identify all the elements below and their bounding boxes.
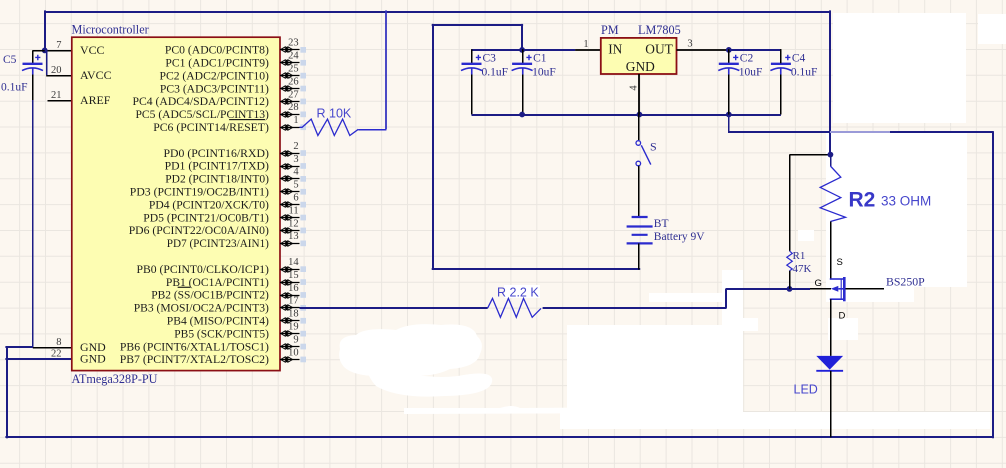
wire R2 top lead [830,155,832,166]
svg-text:13: 13 [288,231,299,242]
wire battery loop top [432,24,523,26]
svg-text:0.1uF: 0.1uF [791,67,818,79]
capacitor C3 [471,49,473,63]
resistor R1 47K [787,251,793,271]
wire battery loop top drop [521,24,523,50]
white patch right middle [826,133,967,302]
white band at gate wire [649,293,725,302]
svg-text:22: 22 [51,348,62,359]
wire PB3 to resistor [300,307,488,309]
svg-text:PD5 (PCINT21/OC0B/T1): PD5 (PCINT21/OC0B/T1) [143,210,269,224]
svg-text:Microcontroller: Microcontroller [72,23,149,37]
wire C5 lower lead black [32,74,34,100]
wire R1 bottom [789,271,791,289]
wire C2 bottom lead [728,75,730,115]
battery BT plates [632,216,648,218]
svg-text:2: 2 [293,141,298,152]
svg-text:26: 26 [288,76,299,87]
wire R10K tail [358,129,386,131]
wire battery loop left [432,24,434,270]
white patch left of R2 bottom [798,230,814,241]
wire LED to ground rail [830,371,832,438]
wire bottom ground rail [5,436,993,438]
wire C1 bottom lead [522,75,524,115]
resistor R2 [820,166,845,222]
svg-text:12: 12 [288,218,299,229]
wire R1 drop [789,155,791,251]
svg-text:9: 9 [293,334,298,345]
wire C5 top link horizontal [33,50,45,52]
svg-text:C3: C3 [483,53,497,65]
wire AVCC stub [46,75,72,77]
svg-text:1: 1 [293,115,298,126]
LED cathode bar [816,370,843,372]
capacitor C5 [23,63,43,65]
wire R1 top from VCC node [790,154,831,156]
wire battery to loop bottom [638,243,640,269]
svg-text:C1: C1 [533,53,547,65]
wire ground link navy right [890,131,994,133]
svg-text:10uF: 10uF [739,67,763,79]
svg-text:PB1 (OC1A/PCINT1): PB1 (OC1A/PCINT1) [166,275,269,289]
white column at wire jog [722,270,743,330]
wire VCC pin stub [45,50,72,52]
white rect right of blob [567,325,743,415]
wire ground link faded [830,131,890,133]
svg-text:GND: GND [80,351,106,365]
wire right ground riser [992,131,994,438]
white blob swoosh [367,360,492,397]
svg-text:16: 16 [288,283,299,294]
svg-text:PC6 (PCINT14/RESET): PC6 (PCINT14/RESET) [153,120,269,134]
white patch SE of jog [742,318,758,331]
wire output to C4 [729,49,781,51]
wire left rail drop to VCC [44,10,46,50]
transistor BS250P symbol [830,278,845,280]
wire AREF stub [48,100,72,102]
svg-text:LM7805: LM7805 [638,23,681,37]
svg-text:R2: R2 [849,189,876,212]
svg-text:PD0 (PCINT16/RXD): PD0 (PCINT16/RXD) [164,146,269,160]
svg-text:17: 17 [288,296,299,307]
white bottom band [560,412,990,429]
svg-text:3: 3 [293,154,298,165]
microcontroller ATmega328P body [72,37,280,370]
wire resistor to jog [543,307,727,309]
wire output stub pin3 [677,49,729,51]
svg-text:PM: PM [601,23,619,37]
white streak [404,406,670,414]
svg-text:R 2.2 K: R 2.2 K [497,286,539,300]
svg-text:PD1 (PCINT17/TXD): PD1 (PCINT17/TXD) [165,159,269,173]
svg-text:PD2 (PCINT18/INT0): PD2 (PCINT18/INT0) [165,172,269,186]
svg-text:5: 5 [293,180,298,191]
svg-text:C2: C2 [740,53,754,65]
svg-text:25: 25 [288,64,299,75]
svg-text:18: 18 [288,309,299,320]
wire C5 top link vertical [32,50,34,63]
wire top rail drop to R2 [829,10,831,154]
svg-text:IN: IN [608,42,622,57]
wire GND pin8 to left [5,346,32,348]
white blob under chip [339,324,482,376]
wire left ground drop [6,346,8,438]
wire top VCC rail [44,11,831,13]
svg-text:0.1uF: 0.1uF [482,67,509,79]
capacitor C2 [728,49,730,63]
svg-text:3: 3 [687,38,692,49]
svg-text:PC4 (ADC4/SDA/PCINT12): PC4 (ADC4/SDA/PCINT12) [133,94,269,108]
svg-text:14: 14 [288,257,299,268]
wire C3 bottom lead [471,75,473,115]
svg-text:20: 20 [51,65,62,76]
svg-text:27: 27 [288,89,299,100]
svg-text:GND: GND [626,59,655,74]
wire jog up [725,289,727,308]
svg-text:47K: 47K [793,263,812,275]
svg-text:0.1uF: 0.1uF [1,82,28,94]
svg-text:33 OHM: 33 OHM [881,194,931,209]
svg-text:LED: LED [794,383,818,397]
switch S [636,141,641,146]
svg-text:PB5 (SCK/PCINT5): PB5 (SCK/PCINT5) [174,326,269,340]
wire regulator input [472,49,575,51]
resistor R 10K [300,119,359,135]
node R2 top junction [828,152,834,158]
wire ground link navy left [728,131,830,133]
wire drain lead [830,299,832,356]
svg-text:8: 8 [56,337,61,348]
svg-text:BT: BT [654,218,669,230]
LED triangle [816,356,843,370]
svg-text:OUT: OUT [645,42,673,57]
svg-text:15: 15 [288,270,299,281]
svg-text:PD6 (PCINT22/OC0A/AIN0): PD6 (PCINT22/OC0A/AIN0) [129,223,269,237]
svg-text:VCC: VCC [80,43,105,57]
svg-text:21: 21 [51,90,62,101]
svg-text:28: 28 [288,102,299,113]
svg-text:PB6 (PCINT6/XTAL1/TOSC1): PB6 (PCINT6/XTAL1/TOSC1) [120,339,269,353]
svg-text:4: 4 [629,85,640,91]
svg-text:PB0 (PCINT0/CLKO/ICP1): PB0 (PCINT0/CLKO/ICP1) [137,262,269,276]
svg-text:PC3 (ADC3/PCINT11): PC3 (ADC3/PCINT11) [160,81,269,95]
node C1 bottom [519,112,525,118]
svg-text:10uF: 10uF [532,67,556,79]
wire input stub pin1 [575,49,601,51]
wire battery loop bottom [432,268,641,270]
svg-text:23: 23 [288,38,299,49]
svg-text:PD4 (PCINT20/XCK/T0): PD4 (PCINT20/XCK/T0) [149,197,269,211]
svg-text:1: 1 [583,39,588,50]
wire R2 to source [830,222,832,280]
svg-text:S: S [650,140,657,154]
svg-text:PB2 (SS/OC1B/PCINT2): PB2 (SS/OC1B/PCINT2) [151,288,269,302]
wire C4 top corner [780,49,782,63]
node C2 bottom [726,112,732,118]
svg-text:19: 19 [288,322,299,333]
svg-text:R 10K: R 10K [317,107,352,121]
svg-text:PB3 (MOSI/OC2A/PCINT3): PB3 (MOSI/OC2A/PCINT3) [134,301,269,315]
svg-text:11: 11 [288,205,298,216]
svg-text:4: 4 [293,167,299,178]
white patch near LED [828,318,858,340]
node regulator gnd junction [637,112,643,118]
svg-text:AVCC: AVCC [80,68,112,82]
svg-text:10: 10 [288,347,299,358]
wire R10K riser [385,10,387,129]
svg-text:C5: C5 [3,54,17,66]
wire ground rail mid [472,114,781,116]
svg-text:PC0 (ADC0/PCINT8): PC0 (ADC0/PCINT8) [165,43,269,57]
capacitor C4 [780,49,782,63]
svg-text:ATmega328P-PU: ATmega328P-PU [72,372,158,386]
svg-text:D: D [839,310,846,321]
wire C5 lower lead navy [32,100,34,348]
svg-text:6: 6 [293,193,298,204]
node C2 top [726,47,732,53]
svg-text:R1: R1 [793,250,806,262]
regulator LM7805 body [601,38,677,74]
svg-text:PC5 (ADC5/SCL/PCINT13): PC5 (ADC5/SCL/PCINT13) [136,107,269,121]
white patch behind R 2.2K label [504,285,540,298]
svg-text:7: 7 [56,40,61,51]
wire switch to battery [638,166,640,217]
node VCC junction [42,48,48,54]
wire ground link C2 drop [728,115,730,133]
svg-text:AREF: AREF [80,93,111,107]
svg-text:PD7 (PCINT23/AIN1): PD7 (PCINT23/AIN1) [167,236,269,250]
svg-text:C4: C4 [792,53,806,65]
wire gate stub black [810,288,831,290]
white patch top far corner [978,14,1006,44]
wire C4 bottom lead [780,75,782,115]
wire GND pin8 stub black [33,347,72,349]
wire GND pin22 [5,358,71,360]
wire gnd stub pin4 [638,74,640,115]
svg-text:Battery 9V: Battery 9V [654,231,705,243]
svg-text:PD3 (PCINT19/OC2B/INT1): PD3 (PCINT19/OC2B/INT1) [130,185,269,199]
white patch top right [833,13,966,123]
node gate R1 junction [787,286,793,292]
svg-text:G: G [815,278,822,289]
svg-text:PC1 (ADC1/PCINT9): PC1 (ADC1/PCINT9) [165,56,269,70]
resistor R 2.2 K [488,298,541,317]
node C1 top [519,47,525,53]
svg-text:24: 24 [288,51,299,62]
wire AVCC riser [46,50,48,75]
svg-text:PB7 (PCINT7/XTAL2/TOSC2): PB7 (PCINT7/XTAL2/TOSC2) [120,352,269,366]
wire pin4 to switch [638,115,640,141]
svg-text:S: S [837,257,843,268]
capacitor C1 [522,49,524,63]
wire jog to gate [726,288,810,290]
svg-text:PC2 (ADC2/PCINT10): PC2 (ADC2/PCINT10) [160,68,269,82]
svg-text:PB4 (MISO/PCINT4): PB4 (MISO/PCINT4) [167,314,269,328]
svg-text:BS250P: BS250P [886,274,925,288]
wire bulk stub right [846,288,885,290]
